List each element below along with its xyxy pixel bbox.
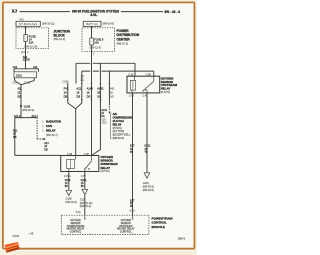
svg-text:S201: S201: [16, 74, 22, 77]
svg-text:CONTROL: CONTROL: [70, 230, 82, 233]
svg-text:C 87: C 87: [129, 95, 135, 98]
svg-text:XJ: XJ: [12, 9, 18, 14]
svg-text:2 22: 2 22: [12, 82, 17, 85]
svg-text:DG: DG: [97, 95, 101, 99]
svg-text:8W - 30 - 8: 8W - 30 - 8: [165, 10, 181, 14]
svg-text:18: 18: [87, 91, 90, 95]
svg-text:18: 18: [76, 91, 79, 95]
svg-text:(8W-10-2): (8W-10-2): [117, 41, 129, 45]
svg-text:J398-8: J398-8: [177, 237, 185, 240]
svg-text:10A: 10A: [94, 41, 99, 45]
svg-text:RELAY: RELAY: [113, 122, 122, 126]
svg-text:A21 2: A21 2: [14, 115, 21, 118]
svg-text:A21: A21: [33, 65, 38, 69]
svg-text:C 86: C 86: [146, 74, 152, 77]
svg-text:(8W-30-2): (8W-30-2): [80, 205, 91, 208]
svg-text:DG: DG: [87, 95, 91, 99]
svg-text:ST-RUN A21: ST-RUN A21: [19, 23, 38, 26]
svg-text:C28A: C28A: [63, 81, 70, 84]
svg-text:A21: A21: [76, 87, 81, 91]
svg-text:PK: PK: [130, 205, 134, 208]
svg-text:RADIATOR: RADIATOR: [46, 119, 62, 123]
svg-text:57296: 57296: [12, 235, 19, 238]
svg-text:(8W-30-2): (8W-30-2): [22, 108, 34, 112]
svg-text:RELAY: RELAY: [46, 129, 56, 133]
svg-text:(8W-42-7): (8W-42-7): [46, 133, 58, 137]
svg-text:(8W-12-7): (8W-12-7): [90, 46, 102, 50]
svg-text:+ 4B: + 4B: [28, 233, 33, 236]
svg-text:A142: A142: [97, 87, 104, 91]
svg-text:DB: DB: [81, 80, 85, 82]
svg-text:4 C1: 4 C1: [76, 211, 82, 214]
svg-text:A/C: A/C: [113, 112, 118, 116]
svg-text:DG: DG: [101, 115, 105, 118]
svg-text:4 DG: 4 DG: [101, 123, 107, 125]
svg-text:(8W-30-9): (8W-30-9): [66, 201, 77, 204]
svg-text:A21: A21: [13, 65, 18, 69]
svg-text:FAN: FAN: [46, 124, 52, 128]
svg-text:10A: 10A: [29, 40, 34, 44]
svg-text:(8W-12-2): (8W-12-2): [54, 37, 66, 41]
svg-text:3 C3: 3 C3: [130, 209, 136, 212]
svg-text:TN: TN: [144, 151, 148, 154]
svg-text:BLOCK: BLOCK: [54, 33, 66, 37]
svg-text:DG: DG: [110, 96, 114, 99]
svg-text:BK: BK: [65, 185, 69, 188]
svg-text:DB: DB: [18, 95, 22, 98]
svg-text:DB: DB: [64, 95, 68, 99]
svg-text:C 86: C 86: [67, 153, 73, 156]
svg-text:C A21: C A21: [24, 82, 31, 85]
svg-text:(8W-10-11): (8W-10-11): [42, 23, 55, 26]
svg-text:C 87A: C 87A: [64, 175, 71, 178]
svg-text:C 30: C 30: [84, 153, 90, 156]
svg-text:RELAY: RELAY: [101, 166, 111, 170]
svg-text:F42: F42: [110, 88, 115, 91]
svg-text:18: 18: [64, 91, 67, 95]
svg-text:18: 18: [97, 91, 100, 95]
svg-text:PK: PK: [130, 151, 134, 154]
svg-text:(8W-12-14): (8W-12-14): [24, 44, 37, 48]
svg-text:DB: DB: [13, 135, 17, 139]
svg-text:CENTER: CENTER: [117, 38, 131, 42]
svg-text:DB: DB: [76, 95, 80, 99]
svg-text:C 30: C 30: [128, 74, 134, 77]
svg-text:(8W-30-5): (8W-30-5): [143, 189, 154, 192]
svg-text:(8-POS): (8-POS): [161, 91, 170, 94]
svg-text:BK: BK: [81, 185, 85, 188]
svg-text:COMPRESSOR: COMPRESSOR: [113, 116, 132, 120]
svg-text:(8W-10-8): (8W-10-8): [103, 23, 114, 26]
svg-text:1C4: 1C4: [21, 51, 26, 54]
svg-text:MODULE: MODULE: [152, 225, 165, 229]
svg-text:CLUTCH: CLUTCH: [113, 119, 124, 123]
svg-text:C28: C28: [101, 119, 106, 121]
svg-text:C 87: C 87: [81, 175, 87, 178]
svg-text:22 DB: 22 DB: [23, 59, 30, 62]
svg-text:A21: A21: [18, 87, 23, 90]
svg-text:4.0L: 4.0L: [90, 13, 98, 17]
svg-text:(8-POS): (8-POS): [101, 170, 110, 173]
svg-text:F42: F42: [64, 87, 69, 91]
svg-text:BATT A0: BATT A0: [86, 23, 98, 26]
svg-text:A21 2: A21 2: [32, 115, 39, 118]
svg-text:C 85: C 85: [143, 95, 149, 98]
svg-text:S108: S108: [24, 104, 31, 108]
svg-text:A142: A142: [87, 87, 94, 91]
svg-text:DB: DB: [44, 148, 48, 152]
svg-text:(8W-42-8): (8W-42-8): [113, 137, 124, 140]
